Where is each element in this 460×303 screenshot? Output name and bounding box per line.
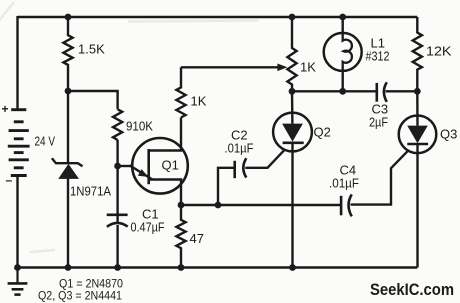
emitter diagonal with arrow [130,165,153,179]
node pot top [289,14,296,21]
resistor R 12K [413,17,422,91]
node C2 branch [215,202,222,209]
resistor R 1.5K [63,17,72,91]
svg-text:12K: 12K [426,44,452,59]
node C3 / 12K / Q3 [414,88,421,95]
node zener bottom rail [65,264,72,271]
Q3 cathode bar [407,143,428,146]
wire bottom rail [18,266,418,268]
svg-text:Q3: Q3 [440,127,457,142]
svg-text:910K: 910K [126,119,153,134]
thyristor Q3 (2N4441) [399,116,437,154]
wire wiper arm [181,66,279,68]
Q3 anode lead [416,91,419,126]
node L1 bottom [339,88,346,95]
capacitor C2 .01uF [233,161,236,178]
Q1 base-1 lead [149,180,181,206]
Q3 cathode lead down [416,144,418,268]
L1 filament [343,34,352,71]
svg-text:47: 47 [190,231,204,246]
thyristor Q2 (2N4441) [273,113,312,152]
node Q1 B1 / 47 / wire [178,202,185,209]
wire C1 bottom lead [116,225,118,268]
svg-text:Q2, Q3 = 2N4441: Q2, Q3 = 2N4441 [38,289,122,303]
wire main horizontal gate bus [181,204,341,206]
wire node to 910K top [68,91,118,109]
wire emitter horizontal [118,165,132,167]
resistor R 910K [113,109,122,140]
wire C2 right to Q2 gate [245,150,284,168]
svg-text:1.5K: 1.5K [78,42,105,57]
Q1 base-2 lead [149,118,181,151]
Q2 anode lead [291,91,294,124]
transistor Q1 (UJT 2N4870) [132,138,188,194]
node top rail / 1.5K [65,14,72,21]
wire 910K bottom to emitter node [116,140,118,166]
capacitor C1 0.47uF [107,214,128,217]
lamp L1 #312 [324,33,362,71]
svg-text:1K: 1K [191,94,207,109]
ground [8,268,28,295]
wire zener cathode bottom [67,178,69,268]
zener diode 1N971A [52,158,83,178]
svg-text:.01µF: .01µF [329,176,359,191]
wire L1 bottom lead [342,70,344,92]
node emitter / C1 [114,163,121,170]
svg-text:SeekIC.com: SeekIC.com [370,280,454,299]
Q3 triangle [407,126,428,144]
svg-text:1N971A: 1N971A [70,184,111,199]
node battery bottom rail [14,264,21,271]
potentiometer R 1K [287,17,296,91]
svg-text:2µF: 2µF [369,115,388,130]
capacitor C4 .01uF [340,196,343,216]
svg-text:24 V: 24 V [35,135,56,149]
svg-text:#312: #312 [366,49,390,64]
resistor R 1K (Q1 base-2) [176,67,185,117]
Q2 cathode lead down [291,143,293,268]
Q1 base bar [147,149,150,184]
battery B1 24V [8,110,30,176]
svg-text:1K: 1K [300,60,316,75]
wire C2 left branch [218,168,234,205]
svg-text:Q1: Q1 [162,158,179,173]
resistor R 47 [176,205,185,268]
svg-text:.01µF: .01µF [225,141,254,156]
svg-text:0.47µF: 0.47µF [131,220,165,235]
node L1 top [339,14,346,21]
svg-text:Q2: Q2 [314,125,331,140]
svg-text:–: – [6,173,13,187]
wire C3 right [386,90,418,92]
node C1 bottom rail [114,264,121,271]
node 47 bottom rail [178,264,185,271]
node Q2 cathode bottom [289,264,296,271]
wire Q3 gate branch [351,150,409,205]
wire top rail [18,16,418,18]
Q2 cathode bar [283,142,304,145]
capacitor C3 2uF [375,83,378,102]
wire L1 top lead [342,17,344,34]
wire C1 top lead [116,166,118,223]
wire left column top (battery + lead) [16,16,18,110]
node pot bottom / Q2 anode [289,88,296,95]
wire left column bottom (battery - lead) [16,176,18,269]
svg-text:+: + [2,102,9,116]
wire zener anode top [67,91,69,163]
wiper arrowhead [277,64,287,72]
node 1.5K bottom / zener / 910K [65,88,72,95]
Q2 triangle [282,124,303,142]
wire anode bus y91 [292,90,376,92]
